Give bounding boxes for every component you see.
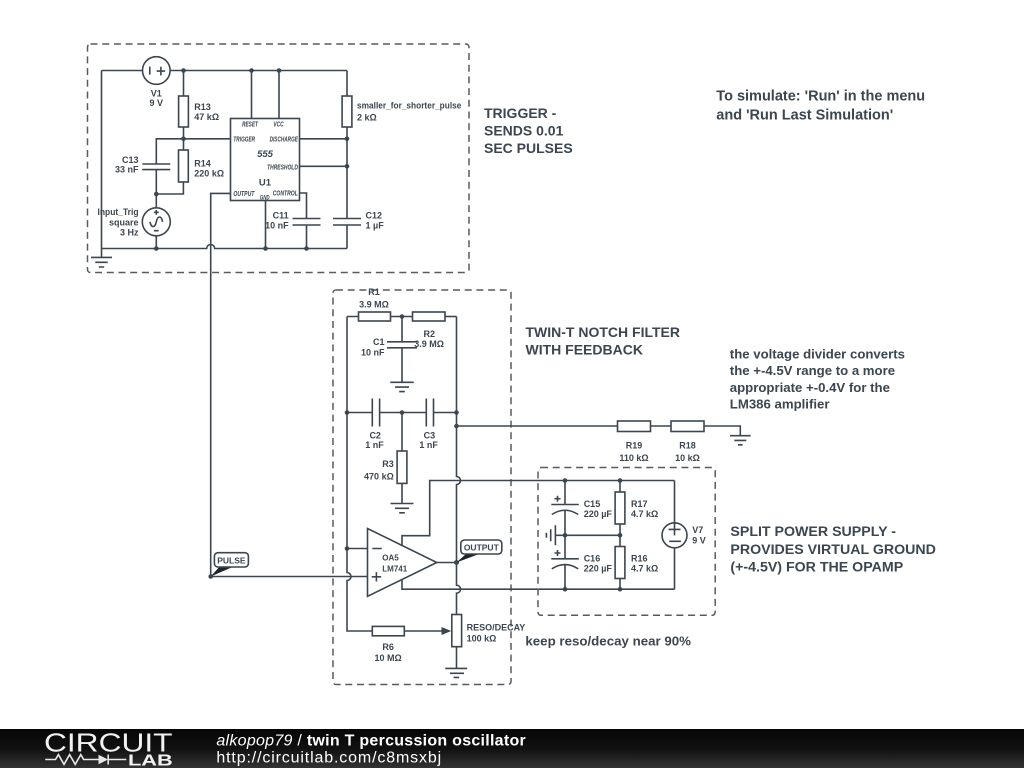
- svg-text:R16: R16: [631, 553, 648, 563]
- svg-text:TRIGGER: TRIGGER: [233, 137, 255, 144]
- node: C13/R14/source junction: [154, 192, 159, 197]
- svg-text:alkopop79 / twin T percussion: alkopop79 / twin T percussion oscillator: [216, 733, 526, 750]
- svg-text:LM386 amplifier: LM386 amplifier: [730, 396, 830, 411]
- resistor R2 3.9M: [413, 312, 457, 349]
- svg-text:220 kΩ: 220 kΩ: [194, 169, 224, 179]
- svg-text:C11: C11: [273, 210, 289, 220]
- svg-text:SPLIT POWER SUPPLY -: SPLIT POWER SUPPLY -: [730, 524, 896, 540]
- wire: to voltage divider: [457, 425, 618, 427]
- wire: twin-T left vertical with hop over pulse wire: [347, 317, 372, 632]
- resistor R3 470k: [364, 413, 407, 504]
- wire: op-amp V- power rail: [402, 580, 675, 590]
- node: C15/C16 middle junction: [563, 533, 568, 538]
- ground (trigger section): [91, 249, 112, 268]
- wire: THRESHOLD net: [300, 165, 348, 167]
- svg-text:R3: R3: [382, 459, 394, 469]
- svg-text:1 nF: 1 nF: [365, 440, 384, 450]
- wire: twin-T middle rail: [347, 412, 457, 414]
- ground (virtual, rotated left): [546, 525, 555, 545]
- voltage source V7 9V: [662, 481, 706, 590]
- node: threshold junction: [345, 164, 350, 169]
- node: feedback/inverting junction: [345, 546, 350, 551]
- svg-text:OUTPUT: OUTPUT: [464, 543, 500, 553]
- node: C2/C3/R3 junction: [400, 410, 405, 415]
- node: C11 to bottom rail: [304, 246, 309, 251]
- resistor R18 10k: [671, 421, 704, 463]
- node: R16 bottom junction: [618, 587, 623, 592]
- svg-text:10 kΩ: 10 kΩ: [675, 453, 700, 463]
- svg-text:TRIGGER -: TRIGGER -: [484, 105, 557, 121]
- node: divider tap junction: [454, 424, 459, 429]
- svg-text:555: 555: [257, 149, 274, 160]
- wire: twin-T right vertical with hops: [457, 317, 461, 615]
- svg-text:4.7 kΩ: 4.7 kΩ: [631, 564, 658, 574]
- svg-text:appropriate +-0.4V for the: appropriate +-0.4V for the: [730, 380, 890, 395]
- resistor R6 10M feedback: [372, 626, 451, 663]
- wire: non-inverting input from pulse: [211, 576, 368, 578]
- node: trigger junction: [181, 137, 186, 142]
- svg-text:C16: C16: [584, 553, 601, 563]
- svg-text:THRESHOLD: THRESHOLD: [267, 164, 298, 171]
- capacitor C15 220uF polarized: [551, 481, 612, 536]
- wire: 555 OUTPUT down to pulse node: [211, 193, 231, 576]
- ground (C1): [390, 382, 413, 391]
- annotation box: twin-T section: [333, 290, 511, 685]
- resistor smaller_for_shorter_pulse 2k: [342, 71, 461, 219]
- capacitor C3 1nF: [419, 399, 438, 451]
- svg-text:C15: C15: [584, 499, 601, 509]
- svg-text:smaller_for_shorter_pulse: smaller_for_shorter_pulse: [357, 101, 461, 111]
- wire: R18 to ground: [704, 426, 740, 436]
- svg-text:CONTROL: CONTROL: [273, 191, 298, 198]
- wire: trigger bottom rail with hop over 555 output wire: [102, 245, 348, 249]
- svg-text:and 'Run Last Simulation': and 'Run Last Simulation': [716, 107, 893, 123]
- svg-text:PULSE: PULSE: [217, 555, 246, 565]
- wire: op-amp V+ power staircase: [402, 481, 675, 546]
- ground (divider): [730, 436, 751, 445]
- svg-text:C1: C1: [373, 337, 385, 347]
- wire: trigger left vertical: [101, 71, 103, 249]
- svg-text:47 kΩ: 47 kΩ: [194, 112, 219, 122]
- resistor R16 4.7k: [615, 535, 658, 589]
- svg-text:DISCHARGE: DISCHARGE: [270, 137, 299, 144]
- annotation text: TRIGGER - SENDS 0.01 SEC PULSES: [484, 105, 573, 156]
- svg-text:PROVIDES VIRTUAL GROUND: PROVIDES VIRTUAL GROUND: [730, 542, 935, 558]
- svg-text:100 kΩ: 100 kΩ: [467, 634, 497, 644]
- svg-text:R1: R1: [368, 287, 380, 297]
- annotation box: trigger section: [88, 44, 470, 273]
- svg-text:VCC: VCC: [273, 122, 284, 129]
- svg-text:V7: V7: [692, 525, 703, 535]
- resistor R13 47k: [179, 71, 219, 139]
- wire: trigger top rail: [102, 70, 348, 72]
- svg-text:U1: U1: [259, 178, 272, 189]
- resistor R19 110k: [618, 421, 651, 463]
- wire: 555 GND stub to bottom rail: [265, 201, 267, 249]
- svg-text:470 kΩ: 470 kΩ: [364, 472, 394, 482]
- svg-text:SENDS 0.01: SENDS 0.01: [484, 123, 564, 139]
- svg-text:LM741: LM741: [382, 565, 407, 574]
- svg-text:33 nF: 33 nF: [115, 165, 139, 175]
- node: C16 bottom junction: [563, 587, 568, 592]
- ground (pot): [445, 668, 467, 677]
- capacitor C13 33nF: [115, 155, 170, 194]
- svg-text:10 MΩ: 10 MΩ: [374, 653, 401, 663]
- footer bar: [0, 729, 1024, 768]
- svg-text:square: square: [109, 217, 139, 227]
- IC U1 555 timer: [231, 119, 300, 202]
- annotation text: To simulate: [716, 89, 925, 124]
- svg-text:Input_Trig: Input_Trig: [98, 207, 139, 217]
- svg-text:R14: R14: [194, 159, 211, 169]
- capacitor C1 10nF: [361, 317, 417, 383]
- op-amp OA5 LM741: [368, 529, 437, 597]
- flag PULSE: [208, 553, 248, 579]
- potentiometer RESO/DECAY 100k: [452, 615, 525, 669]
- svg-text:3.9 MΩ: 3.9 MΩ: [359, 299, 389, 309]
- svg-text:keep reso/decay near 90%: keep reso/decay near 90%: [525, 634, 691, 649]
- capacitor C2 1nF: [365, 399, 384, 451]
- node: right C3 junction: [454, 410, 459, 415]
- annotation text: SPLIT POWER SUPPLY: [730, 524, 935, 576]
- node: source to bottom rail: [154, 246, 159, 251]
- svg-text:RESO/DECAY: RESO/DECAY: [467, 622, 526, 632]
- node: R17 top junction: [618, 478, 623, 483]
- svg-text:To simulate: 'Run' in the menu: To simulate: 'Run' in the menu: [716, 89, 925, 105]
- svg-text:V1: V1: [151, 88, 162, 98]
- annotation text: voltage divider note: [730, 347, 905, 412]
- svg-text:R19: R19: [626, 441, 643, 451]
- svg-text:the +-4.5V range to a more: the +-4.5V range to a more: [730, 363, 895, 378]
- wire: inverting input: [347, 548, 368, 550]
- svg-text:9 V: 9 V: [692, 535, 706, 545]
- svg-text:RESET: RESET: [242, 122, 258, 129]
- svg-text:C3: C3: [424, 430, 436, 440]
- svg-text:4.7 kΩ: 4.7 kΩ: [631, 509, 658, 519]
- svg-text:R2: R2: [424, 329, 436, 339]
- node: output junction: [454, 560, 459, 565]
- capacitor C11 10nF: [265, 210, 320, 248]
- svg-text:1 µF: 1 µF: [366, 220, 385, 230]
- svg-text:3.9 MΩ: 3.9 MΩ: [414, 339, 444, 349]
- node: C15 top junction: [563, 478, 568, 483]
- svg-text:2 kΩ: 2 kΩ: [357, 112, 377, 122]
- svg-text:TWIN-T NOTCH FILTER: TWIN-T NOTCH FILTER: [526, 324, 681, 340]
- wire: DISCHARGE net: [300, 138, 348, 140]
- svg-text:1 nF: 1 nF: [419, 440, 438, 450]
- logo resistor zigzag and diode: [45, 755, 126, 765]
- node: top rail junction at RESET: [249, 68, 254, 73]
- svg-text:220 µF: 220 µF: [584, 509, 613, 519]
- node: top rail junction at VCC: [277, 68, 282, 73]
- svg-text:(+-4.5V) FOR THE OPAMP: (+-4.5V) FOR THE OPAMP: [730, 560, 903, 576]
- svg-text:the voltage divider converts: the voltage divider converts: [730, 347, 905, 362]
- svg-text:C13: C13: [122, 155, 139, 165]
- flag OUTPUT: [457, 540, 502, 563]
- svg-text:OUTPUT: OUTPUT: [233, 191, 255, 198]
- svg-text:C2: C2: [369, 430, 381, 440]
- source Input_Trig square 3Hz: [98, 194, 171, 249]
- resistor R14 220k: [156, 139, 224, 194]
- svg-text:110 kΩ: 110 kΩ: [619, 453, 648, 463]
- voltage source V1: [143, 57, 171, 108]
- capacitor C16 220uF polarized: [551, 535, 612, 589]
- resistor R1 3.9M: [347, 287, 413, 321]
- node: discharge junction: [345, 137, 350, 142]
- wire: split middle rail: [556, 534, 621, 536]
- wire: between R19 R18: [651, 425, 672, 427]
- svg-text:R13: R13: [194, 102, 211, 112]
- annotation text: TWIN-T NOTCH FILTER: [526, 324, 681, 358]
- node: left C2 junction: [345, 410, 350, 415]
- capacitor C12 1uF: [333, 210, 384, 248]
- node: top rail junction at R13: [181, 68, 186, 73]
- wire: op-amp output: [437, 562, 457, 564]
- svg-text:LAB: LAB: [128, 752, 173, 768]
- ground (R3): [391, 504, 414, 513]
- svg-text:R6: R6: [382, 642, 394, 652]
- node: R17/R16 middle junction: [618, 533, 623, 538]
- node: R1/R2/C1 junction: [400, 314, 405, 319]
- svg-text:3 Hz: 3 Hz: [120, 228, 139, 238]
- resistor R17 4.7k: [615, 481, 658, 536]
- svg-text:http://circuitlab.com/c8msxbj: http://circuitlab.com/c8msxbj: [216, 750, 442, 767]
- wire: TRIGGER net: [156, 139, 230, 164]
- svg-text:10 nF: 10 nF: [265, 220, 289, 230]
- node: 555 GND to bottom rail: [263, 246, 268, 251]
- annotation box: split supply section: [538, 468, 715, 616]
- svg-text:220 µF: 220 µF: [584, 564, 613, 574]
- wire: CONTROL net to C11: [300, 193, 307, 219]
- svg-text:R18: R18: [679, 441, 696, 451]
- svg-text:10 nF: 10 nF: [361, 348, 385, 358]
- wire: RESET and VCC stubs to top rail: [252, 71, 280, 119]
- svg-text:GND: GND: [260, 195, 270, 201]
- svg-text:OA5: OA5: [382, 553, 399, 562]
- svg-text:WITH FEEDBACK: WITH FEEDBACK: [526, 342, 643, 358]
- svg-text:R17: R17: [631, 499, 648, 509]
- svg-text:C12: C12: [366, 210, 383, 220]
- svg-text:SEC PULSES: SEC PULSES: [484, 140, 573, 156]
- svg-text:9 V: 9 V: [150, 98, 164, 108]
